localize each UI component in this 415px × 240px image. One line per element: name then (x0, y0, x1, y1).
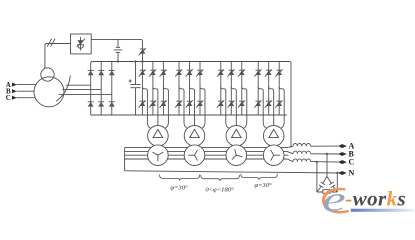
junction node on DC bus at control wire (141, 60, 143, 62)
input transformer large circle (34, 77, 64, 107)
thyristor V1 top (139, 69, 146, 76)
transformer winding arc (56, 76, 70, 102)
midpoint tap wire to transformer (142, 87, 151, 129)
wye winding symbol (232, 149, 242, 159)
midpoint tap wire to transformer (190, 87, 195, 126)
inductor L2 phase B (293, 151, 311, 154)
output bus line 4 (125, 158, 287, 160)
battery B1 on control wire (114, 39, 122, 61)
thyristor V21 top (275, 69, 282, 76)
midpoint tap wire to transformer (221, 87, 230, 129)
phase A line to terminal (311, 145, 341, 147)
electrolytic capacitor C1 (129, 62, 141, 116)
input terminal arrow B (12, 89, 17, 93)
phase angle brace 2 (201, 175, 240, 181)
inverter leg wire group2-1 (178, 62, 180, 116)
svg-text:-works: -works (345, 187, 406, 211)
bridge diode D1 top (88, 70, 94, 75)
output bus line 3 (125, 154, 289, 156)
filter bottom wire (317, 191, 337, 193)
filter capacitor branch right upper (327, 176, 331, 183)
filter tap wire from neutral (336, 173, 338, 192)
midpoint tap wire to transformer (258, 87, 267, 129)
midpoint tap wire to transformer (179, 87, 188, 129)
thyristor V18 bottom (238, 100, 245, 107)
output transformer T3 wye circle (226, 145, 247, 166)
connector bus to phase C (287, 159, 293, 162)
thyristor V8 top (186, 69, 193, 76)
midpoint tap wire to transformer (231, 87, 236, 126)
thyristor V15 top (238, 69, 245, 76)
inductor L1 phase A (293, 144, 311, 147)
input transformer small circle (41, 68, 54, 81)
inverter leg wire group1-3 (162, 62, 164, 116)
filter capacitor branch right lower (333, 187, 337, 192)
delta winding symbol (153, 129, 163, 137)
secondary line to rectifier column 1 (66, 84, 91, 86)
cable double-slash marks (47, 39, 51, 47)
output transformer T1 wye circle (148, 145, 169, 166)
logo letter e (322, 179, 345, 219)
thyristor V19 top (254, 69, 261, 76)
input terminal arrow A (12, 83, 17, 87)
junction node on DC bus at capacitor (134, 60, 136, 62)
thyristor V23 bottom (265, 100, 272, 107)
thyristor V24 bottom (275, 100, 282, 107)
input terminal arrow C (12, 96, 17, 100)
output terminal arrow B (339, 152, 346, 157)
inverter leg wire group3-3 (241, 62, 243, 116)
phase angle brace 1 (160, 175, 200, 181)
midpoint tap wire to transformer (242, 87, 247, 129)
output bus line 2 (125, 150, 287, 152)
inverter leg wire group1-2 (152, 62, 154, 116)
filter tap wire from phase C (316, 162, 318, 192)
thyristor inside control box (77, 37, 85, 51)
negative DC bus (91, 114, 287, 116)
secondary line to rectifier column 3 (59, 94, 112, 96)
capacitor plates right (329, 182, 333, 185)
thyristor V3 top (160, 69, 167, 76)
inverter leg wire group4-1 (257, 62, 259, 116)
thyristor V22 bottom (254, 100, 261, 107)
connector bus to phase A (287, 146, 293, 147)
output terminal arrow N (339, 171, 346, 176)
thyristor V20 top (265, 69, 272, 76)
thyristor V11 bottom (186, 100, 193, 107)
svg-text:C: C (6, 94, 11, 102)
output terminal arrow C (339, 160, 346, 165)
neutral return line N (125, 171, 341, 173)
positive DC bus (93, 62, 291, 148)
inverter leg wire group1-1 (141, 62, 143, 116)
thyristor V13 top (217, 69, 224, 76)
logo gradient bar (351, 209, 414, 212)
thyristor on wire dropping to DC bus (139, 48, 146, 55)
filter resistor (323, 190, 330, 194)
logo orange swoosh (322, 188, 349, 214)
output transformer T2 wye circle (184, 145, 205, 166)
filter capacitor branch left upper (323, 176, 327, 183)
inverter leg wire group3-1 (220, 62, 222, 116)
phase A input line (17, 84, 36, 86)
svg-text:N: N (349, 168, 355, 177)
connector bus to phase B (287, 151, 293, 153)
output transformer T2 delta circle (184, 126, 205, 147)
output terminal arrow A (339, 144, 346, 149)
bridge diode D6 bottom (109, 102, 115, 107)
thyristor V2 top (149, 69, 156, 76)
secondary line to rectifier column 2 (62, 89, 101, 91)
inverter leg wire group4-3 (278, 62, 280, 116)
phase B line to terminal (311, 153, 341, 155)
svg-text:φ=30°: φ=30° (170, 185, 188, 192)
junction node filter B tap (326, 153, 328, 155)
filter tap wire from phase B (326, 154, 328, 177)
phase B input line (17, 90, 34, 92)
filter capacitor branch left lower (317, 187, 321, 192)
bridge diode D2 top (98, 70, 104, 75)
midpoint tap wire to transformer (269, 87, 274, 126)
inverter leg wire group4-2 (268, 62, 270, 116)
svg-text:φ=30°: φ=30° (254, 182, 272, 189)
output transformer T3 delta circle (226, 126, 247, 147)
delta winding symbol (190, 129, 200, 137)
midpoint tap wire to transformer (153, 87, 158, 126)
rectifier bridge column verticals (91, 62, 93, 116)
output bus left tie bar (124, 148, 126, 171)
thyristor V6 bottom (160, 100, 167, 107)
wye winding symbol (271, 150, 280, 161)
thyristor V9 top (196, 69, 203, 76)
thyristor V10 bottom (175, 100, 182, 107)
wye winding symbol (153, 152, 164, 161)
thyristor V12 bottom (196, 100, 203, 107)
bridge diode D5 bottom (98, 102, 104, 107)
midpoint tap wire to transformer (279, 87, 284, 129)
wire control vertical from transformer to corner (45, 44, 71, 69)
bridge diode D4 bottom (88, 102, 94, 107)
output bus line 1 (125, 147, 287, 149)
thyristor V14 top (227, 69, 234, 76)
control unit box U1 (71, 34, 92, 54)
wye winding symbol (188, 150, 197, 161)
thyristor V17 bottom (227, 100, 234, 107)
junction node filter C tap (316, 161, 318, 163)
output transformer T4 wye circle (263, 145, 284, 166)
phase C input line (17, 97, 36, 99)
inverter leg wire group3-2 (230, 62, 232, 116)
wire from control box to DC bus (91, 39, 142, 61)
inverter leg wire group2-3 (199, 62, 201, 116)
midpoint tap wire to transformer (200, 87, 205, 129)
inductor L3 phase C (293, 159, 311, 162)
junction node on DC bus at battery (117, 60, 119, 62)
delta winding symbol (232, 129, 242, 137)
output transformer T1 delta circle (148, 126, 169, 147)
thyristor V5 bottom (149, 100, 156, 107)
capacitor plates left (321, 182, 325, 185)
svg-text:e: e (322, 179, 345, 219)
bridge diode D3 top (109, 70, 115, 75)
svg-text:C: C (349, 158, 355, 167)
inverter leg wire group2-2 (189, 62, 191, 116)
svg-text:0<φ<180°: 0<φ<180° (205, 187, 234, 194)
delta winding symbol (269, 129, 279, 137)
output transformer T4 delta circle (263, 126, 284, 147)
junction node filter N tap (336, 172, 338, 174)
thyristor V4 bottom (139, 100, 146, 107)
phase angle brace 3 (241, 174, 278, 180)
thyristor V16 bottom (217, 100, 224, 107)
midpoint tap wire to transformer (163, 87, 168, 129)
phase C line to terminal (311, 161, 341, 164)
thyristor V7 top (175, 69, 182, 76)
